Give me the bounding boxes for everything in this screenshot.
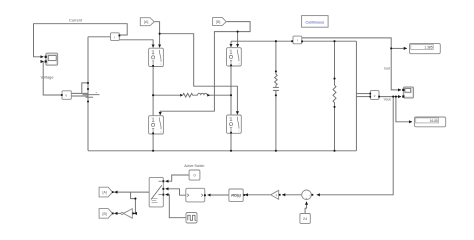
svg-text:+: + [96, 91, 98, 95]
svg-text:24: 24 [303, 217, 307, 221]
svg-text:Active Switch: Active Switch [184, 164, 204, 168]
svg-text:Continuous: Continuous [305, 20, 324, 24]
svg-text:[A]: [A] [144, 20, 148, 24]
svg-text:Vout: Vout [384, 97, 391, 101]
svg-text:16.85: 16.85 [430, 119, 438, 123]
svg-text:Voltage: Voltage [41, 74, 54, 79]
svg-text:Current: Current [69, 17, 83, 22]
svg-text:[A]: [A] [103, 191, 107, 195]
svg-text:PID(s): PID(s) [231, 194, 241, 198]
svg-text:0: 0 [193, 174, 195, 178]
svg-text:1.385: 1.385 [424, 45, 432, 49]
svg-text:Iout: Iout [384, 67, 390, 71]
svg-text:[B]: [B] [103, 212, 107, 216]
svg-text:v: v [65, 94, 67, 98]
svg-text:[B]: [B] [216, 20, 220, 24]
svg-text:+: + [305, 197, 307, 201]
